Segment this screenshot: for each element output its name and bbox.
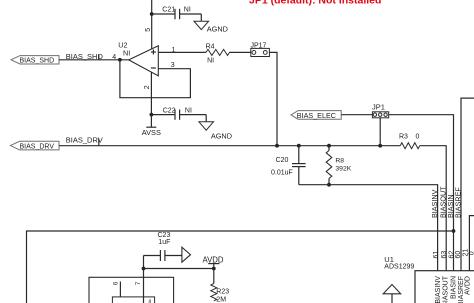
capacitor C22 [151, 114, 175, 116]
wire BIAS_DRV net [59, 145, 400, 147]
resistor R23 [213, 269, 215, 284]
wire BIASINV run [299, 185, 438, 271]
capacitor C23 [144, 255, 161, 257]
svg-text:JP1 (default): Not Installed: JP1 (default): Not Installed [249, 0, 381, 7]
svg-text:NI: NI [207, 57, 214, 64]
svg-text:3: 3 [171, 62, 175, 69]
wire AVDD to C23 [144, 268, 214, 270]
svg-text:0.01uF: 0.01uF [271, 170, 293, 177]
svg-text:BIASINV: BIASINV [435, 276, 442, 303]
op-amp U2 [129, 46, 159, 76]
svg-text:C21: C21 [162, 7, 175, 14]
svg-text:0: 0 [416, 133, 420, 140]
svg-text:5: 5 [145, 28, 152, 32]
svg-text:NI: NI [184, 7, 191, 14]
svg-text:7: 7 [135, 281, 142, 285]
svg-text:NI: NI [123, 48, 130, 57]
capacitor C21 [152, 13, 175, 15]
svg-text:BIAS_DRV: BIAS_DRV [20, 144, 55, 151]
wire AVDD pin 21 run from right edge [469, 216, 474, 271]
svg-text:R8: R8 [335, 158, 344, 165]
IC (bottom-left, cut off) [89, 277, 174, 303]
wire: vertical into op-amp pin 5 [151, 0, 153, 49]
wire long BIASIN net to bottom-left [27, 231, 454, 303]
node: AVDD junction [212, 267, 216, 271]
node: C21 tap junction [150, 12, 154, 16]
svg-text:NI: NI [185, 107, 192, 114]
wire feedback loop (pin 3) [120, 60, 190, 98]
capacitor C20 [298, 146, 300, 164]
inner symbol box [112, 297, 154, 303]
svg-text:ADS1299: ADS1299 [384, 263, 414, 270]
node junctions on BIAS_DRV [275, 144, 279, 148]
wire to AGND [200, 14, 202, 21]
jumper JP17 [251, 48, 270, 56]
svg-text:AVSS: AVSS [142, 128, 161, 137]
svg-text:BIAS_ELEC: BIAS_ELEC [297, 111, 336, 120]
svg-text:C22: C22 [163, 107, 176, 114]
wire BIASREF run from right edge [461, 98, 474, 271]
node: C23 junction [142, 267, 146, 271]
svg-text:JP1: JP1 [372, 102, 385, 111]
node: C20/R8 bottom junction [327, 183, 331, 187]
ground AGND (lower) [199, 122, 214, 130]
svg-text:BIAS_DRV: BIAS_DRV [66, 136, 103, 145]
node: op-amp input junction [118, 58, 122, 62]
wire C23 left down [143, 256, 145, 303]
off-page flag BIAS_ELEC [291, 111, 341, 120]
wire BIASOUT run [420, 146, 447, 271]
pin 6 stub [119, 282, 121, 297]
svg-text:2M: 2M [216, 296, 226, 303]
jumper JP1 [372, 112, 388, 118]
svg-text:BIASIN: BIASIN [450, 276, 457, 299]
wire JP1 middle pin down [379, 118, 381, 146]
svg-text:8: 8 [149, 299, 152, 303]
svg-text:BIAS_SHD: BIAS_SHD [20, 58, 55, 65]
svg-text:1uF: 1uF [158, 239, 170, 246]
node: C22 / AVSS junction [150, 113, 154, 117]
wire JP17 down to BIAS_DRV net [269, 52, 277, 145]
svg-text:R4: R4 [206, 43, 215, 50]
wire pin 2 down [150, 72, 152, 115]
svg-text:AGND: AGND [207, 24, 228, 33]
svg-text:BIASOUT: BIASOUT [443, 275, 450, 303]
wire BIAS_SHD to op-amp [59, 59, 129, 61]
svg-text:392K: 392K [335, 165, 351, 172]
svg-text:BIASREF: BIASREF [453, 187, 462, 218]
svg-text:2: 2 [144, 85, 151, 89]
svg-text:R23: R23 [216, 289, 229, 296]
svg-text:JP17: JP17 [251, 42, 267, 49]
ground AGND (top) [194, 21, 209, 29]
svg-text:C20: C20 [276, 157, 289, 164]
svg-text:BIAS_SHD: BIAS_SHD [66, 52, 104, 61]
off-page arrow (C23 right) [182, 247, 191, 262]
resistor R8 [328, 146, 330, 151]
svg-text:60: 60 [455, 251, 462, 259]
IC U1 ADS1299 [415, 271, 474, 303]
svg-text:R3: R3 [399, 133, 408, 140]
svg-text:AVDD: AVDD [465, 276, 472, 295]
wire to AGND [205, 115, 207, 122]
svg-text:0: 0 [468, 251, 474, 255]
wire pin 1 output [158, 51, 206, 53]
power AVSS [150, 115, 152, 128]
node: BIASIN tap [452, 229, 456, 233]
resistor R4 [206, 49, 230, 55]
wire JP1 right / BIASIN run [389, 115, 454, 271]
wire R4 to JP17 [230, 51, 251, 53]
power arrow AVDD (below U1) [383, 285, 401, 294]
svg-text:63: 63 [441, 251, 448, 259]
resistor R3 [400, 143, 420, 149]
wire flag to JP1 [341, 114, 372, 116]
svg-text:AGND: AGND [211, 132, 232, 141]
off-page flag BIAS_DRV [10, 141, 59, 150]
off-page flag BIAS_SHD [11, 56, 59, 64]
svg-text:6: 6 [113, 281, 120, 285]
svg-text:61: 61 [433, 251, 440, 259]
